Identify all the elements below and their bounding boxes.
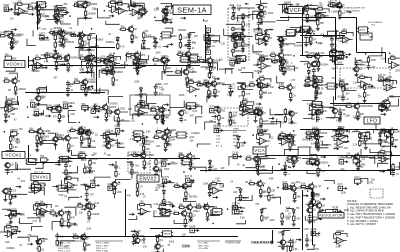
wire bbox=[262, 119, 276, 124]
svg-text:.047: .047 bbox=[262, 93, 267, 95]
base resistor R232 bbox=[76, 203, 83, 207]
base resistor R191 bbox=[178, 153, 185, 157]
ground bbox=[259, 194, 263, 198]
wire kb-box right bbox=[125, 189, 127, 237]
emitter resistor R8 bbox=[84, 10, 96, 15]
node bbox=[331, 136, 333, 138]
svg-text:ENV#1: ENV#1 bbox=[32, 175, 48, 180]
emitter resistor R4 bbox=[38, 13, 50, 18]
signal arrow bbox=[346, 11, 351, 13]
capacitor C42 bbox=[55, 233, 64, 239]
wire bbox=[208, 69, 210, 72]
jack J16 bbox=[209, 106, 218, 112]
base resistor R87 bbox=[306, 53, 313, 57]
node bbox=[17, 138, 19, 140]
wire bbox=[361, 149, 375, 157]
jack J19 bbox=[213, 126, 222, 132]
jack J13 bbox=[63, 102, 72, 108]
jack J5 bbox=[235, 56, 244, 63]
wire bbox=[285, 5, 287, 8]
diode D36 bbox=[281, 220, 284, 226]
svg-text:15K: 15K bbox=[290, 162, 295, 164]
capacitor C27 bbox=[316, 116, 323, 122]
signal arrow bbox=[81, 208, 86, 210]
resistor R185 bbox=[131, 168, 139, 176]
ground bbox=[316, 147, 320, 151]
svg-text:4.7K: 4.7K bbox=[44, 61, 49, 63]
wire bbox=[230, 4, 234, 6]
capacitor C18 bbox=[66, 81, 76, 87]
wire bbox=[277, 35, 281, 37]
wire bbox=[342, 93, 344, 96]
emitter resistor R76 bbox=[209, 65, 216, 70]
svg-text:.001: .001 bbox=[3, 33, 8, 35]
svg-text:3.3K: 3.3K bbox=[359, 141, 364, 143]
wire bbox=[150, 110, 157, 112]
jack J26 bbox=[107, 183, 116, 190]
signal arrow bbox=[165, 59, 170, 61]
IC U19 bbox=[58, 156, 70, 162]
capacitor C15 bbox=[312, 68, 321, 74]
op-amp A2 bbox=[109, 6, 122, 13]
wire bbox=[174, 220, 188, 224]
node bbox=[194, 168, 196, 170]
transistor Q14 bbox=[58, 29, 74, 38]
svg-text:2N3904: 2N3904 bbox=[168, 130, 177, 132]
svg-text:OBERHEIM: OBERHEIM bbox=[251, 241, 273, 245]
capacitor C1 bbox=[164, 16, 174, 22]
emitter resistor R169 bbox=[317, 142, 329, 147]
IC U13 bbox=[185, 103, 197, 109]
svg-text:.047: .047 bbox=[203, 81, 208, 83]
node bbox=[256, 80, 258, 82]
svg-text:33K: 33K bbox=[371, 179, 376, 181]
feedback resistor R120 bbox=[5, 99, 18, 107]
wire bbox=[95, 177, 111, 183]
transistor Q50 bbox=[310, 81, 326, 90]
wire bbox=[54, 57, 67, 62]
svg-text:2N3906: 2N3906 bbox=[7, 99, 16, 101]
svg-text:R21: R21 bbox=[131, 35, 136, 37]
svg-text:1M: 1M bbox=[55, 206, 58, 208]
ground bbox=[217, 122, 221, 126]
ground bbox=[154, 172, 158, 176]
transistor Q36 bbox=[278, 57, 289, 66]
wire bbox=[117, 139, 124, 147]
svg-text:4.7K: 4.7K bbox=[163, 84, 168, 86]
wire bbox=[156, 83, 162, 85]
svg-text:8.2K: 8.2K bbox=[357, 162, 362, 164]
signal arrow bbox=[41, 54, 46, 56]
svg-text:68K: 68K bbox=[217, 112, 222, 114]
wire bbox=[91, 88, 100, 94]
wire bbox=[15, 5, 29, 14]
svg-text:4.7K: 4.7K bbox=[291, 80, 296, 82]
wire bbox=[88, 41, 90, 44]
IC U3 bbox=[160, 32, 172, 38]
node bbox=[104, 10, 106, 12]
svg-text:220K: 220K bbox=[270, 220, 276, 222]
base resistor R172 bbox=[305, 130, 312, 134]
emitter resistor R218 bbox=[293, 193, 301, 198]
wire bbox=[139, 108, 153, 116]
transistor Q2 bbox=[54, 15, 65, 21]
op-amp A14 bbox=[388, 62, 400, 69]
svg-text:56K: 56K bbox=[238, 70, 243, 72]
base resistor R144 bbox=[345, 103, 352, 107]
jack J10 bbox=[378, 75, 387, 81]
svg-text:33K: 33K bbox=[14, 44, 19, 46]
wire bbox=[127, 161, 132, 163]
wire D-section rail bbox=[300, 55, 345, 57]
wire bbox=[324, 34, 333, 37]
wire bbox=[7, 211, 16, 216]
wire bbox=[369, 158, 385, 162]
svg-text:CA3046: CA3046 bbox=[312, 158, 321, 161]
ground bbox=[187, 64, 191, 68]
wire vco1 mid link bbox=[75, 47, 115, 49]
potentiometer VR6 bbox=[88, 54, 97, 62]
IC U10 bbox=[311, 77, 323, 83]
wire bbox=[201, 59, 213, 67]
wire bbox=[170, 101, 185, 108]
svg-text:1N914: 1N914 bbox=[313, 194, 320, 196]
signal arrow bbox=[168, 43, 173, 45]
wire bbox=[339, 108, 341, 111]
wire bbox=[256, 108, 260, 110]
ground bbox=[259, 95, 263, 99]
node bbox=[195, 95, 197, 97]
wire bbox=[5, 164, 18, 170]
resistor R82 bbox=[279, 56, 288, 64]
capacitor C38 bbox=[8, 187, 17, 193]
wire bbox=[16, 162, 31, 169]
ground bbox=[87, 47, 91, 51]
svg-text:4.7K: 4.7K bbox=[135, 95, 140, 97]
wire bbox=[308, 114, 317, 122]
emitter resistor R113 bbox=[316, 85, 324, 90]
ground bbox=[213, 94, 217, 98]
diode D32 bbox=[162, 189, 165, 195]
signal arrow bbox=[81, 34, 86, 36]
svg-text:5.6K: 5.6K bbox=[311, 221, 316, 223]
resistor R158 bbox=[142, 137, 154, 145]
wire mix bus bbox=[200, 170, 395, 172]
wire bbox=[355, 57, 365, 65]
wire bbox=[135, 236, 144, 244]
svg-text:+15V: +15V bbox=[15, 142, 21, 144]
svg-text:.001: .001 bbox=[212, 188, 217, 190]
wire bbox=[375, 155, 386, 164]
wire bbox=[88, 54, 95, 56]
jack J28 bbox=[185, 176, 194, 182]
ground bbox=[90, 68, 94, 72]
jack J30 bbox=[337, 184, 346, 190]
svg-text:Q12: Q12 bbox=[184, 113, 189, 115]
svg-text:-15V: -15V bbox=[101, 57, 106, 59]
wire reg vertical2 bbox=[312, 190, 314, 245]
svg-text:4.7K: 4.7K bbox=[230, 85, 235, 87]
svg-text:4.7K: 4.7K bbox=[229, 123, 234, 125]
transistor Q104 bbox=[79, 233, 90, 242]
transistor Q54 bbox=[113, 107, 129, 116]
jack J31 bbox=[11, 209, 20, 216]
svg-text:.001: .001 bbox=[214, 212, 219, 214]
ground bbox=[356, 167, 360, 171]
svg-text:GATE: GATE bbox=[189, 225, 196, 228]
wire bbox=[155, 170, 162, 177]
svg-text:Q12: Q12 bbox=[286, 242, 291, 244]
svg-text:1N914: 1N914 bbox=[179, 61, 186, 63]
wire bbox=[151, 249, 164, 252]
panel jack row 2 bbox=[231, 27, 244, 31]
ground bbox=[363, 99, 367, 103]
svg-text:33K: 33K bbox=[209, 121, 214, 123]
ground bbox=[35, 148, 39, 152]
wire bbox=[246, 161, 256, 168]
diode D37 bbox=[292, 209, 295, 215]
base resistor R236 bbox=[178, 204, 185, 208]
node bbox=[69, 54, 71, 56]
svg-text:2N3906: 2N3906 bbox=[32, 71, 41, 73]
emitter resistor R21 bbox=[339, 10, 346, 15]
box lfo range switch bbox=[360, 33, 372, 40]
feedback resistor R142 bbox=[309, 103, 322, 111]
node bbox=[258, 72, 260, 74]
jack J35 bbox=[11, 227, 20, 233]
emitter resistor R56 bbox=[67, 63, 74, 68]
transistor Q23 bbox=[277, 36, 288, 42]
svg-text:2N3906: 2N3906 bbox=[294, 46, 303, 48]
svg-text:47K: 47K bbox=[127, 195, 132, 197]
signal arrow bbox=[180, 17, 185, 19]
IC U21 bbox=[286, 156, 298, 162]
resistor R220 bbox=[312, 191, 321, 199]
ground bbox=[62, 44, 66, 48]
wire bbox=[68, 190, 77, 194]
resistor R247 bbox=[38, 245, 45, 252]
resistor R200 bbox=[9, 193, 17, 201]
emitter resistor R154 bbox=[88, 138, 96, 143]
wire bbox=[282, 136, 293, 144]
wire rail drop 1 bbox=[112, 66, 114, 70]
transistor Q31 bbox=[101, 57, 112, 66]
node bbox=[227, 208, 229, 210]
svg-text:18K: 18K bbox=[48, 106, 53, 108]
svg-text:2.2K: 2.2K bbox=[353, 144, 358, 146]
wire bbox=[112, 62, 125, 68]
wire L rail bbox=[300, 129, 398, 131]
resistor R37 bbox=[117, 42, 126, 50]
jack J36 bbox=[189, 225, 198, 232]
wire VCO1 mid rail bbox=[25, 92, 105, 94]
wire bbox=[260, 17, 262, 20]
resistor R78 bbox=[208, 72, 214, 80]
signal arrow bbox=[212, 115, 217, 117]
svg-text:2.2K: 2.2K bbox=[130, 139, 135, 141]
ground bbox=[10, 46, 14, 50]
svg-text:LAST: LAST bbox=[216, 128, 222, 131]
svg-text:+15V: +15V bbox=[56, 42, 62, 44]
potentiometer VR5 bbox=[5, 54, 14, 62]
svg-text:.001: .001 bbox=[78, 39, 83, 41]
wire bbox=[36, 105, 48, 110]
resistor R252 bbox=[289, 245, 298, 252]
IC U12 bbox=[50, 106, 62, 112]
signal arrow bbox=[269, 117, 274, 119]
potentiometer VR7 bbox=[161, 56, 170, 64]
node bbox=[245, 3, 247, 5]
wire bbox=[52, 222, 60, 231]
svg-text:2N3906: 2N3906 bbox=[70, 138, 79, 140]
ground bbox=[304, 43, 308, 47]
resistor R140 bbox=[284, 108, 293, 116]
signal arrow bbox=[189, 181, 194, 183]
panel jack row 3 bbox=[231, 38, 244, 42]
resistor R145 bbox=[10, 135, 21, 143]
node bbox=[69, 15, 71, 17]
diode D12 bbox=[279, 43, 282, 49]
IC U9 bbox=[235, 56, 247, 62]
ground bbox=[330, 48, 334, 52]
svg-text:47K: 47K bbox=[17, 1, 22, 3]
base resistor R67 bbox=[94, 59, 101, 63]
node bbox=[135, 242, 137, 244]
transistor Q20 bbox=[231, 32, 242, 38]
svg-text:R21: R21 bbox=[254, 32, 259, 34]
potentiometer VR15 bbox=[384, 130, 393, 138]
ground bbox=[292, 222, 296, 226]
transistor Q80 bbox=[152, 166, 163, 172]
svg-text:15K: 15K bbox=[135, 57, 140, 59]
diode D11 bbox=[264, 29, 267, 35]
transistor Q62 bbox=[314, 109, 325, 115]
signal arrow bbox=[368, 85, 373, 87]
feedback resistor R157 bbox=[103, 131, 116, 139]
wire bbox=[261, 158, 276, 164]
svg-text:1M: 1M bbox=[10, 19, 13, 21]
resistor R55 bbox=[33, 64, 45, 72]
svg-text:12K: 12K bbox=[4, 78, 9, 80]
wire bbox=[275, 60, 286, 64]
svg-text:2.2K: 2.2K bbox=[70, 114, 75, 116]
signal arrow bbox=[345, 53, 350, 55]
diode D3 bbox=[232, 11, 235, 17]
potentiometer VR4 bbox=[284, 2, 293, 10]
node bbox=[157, 106, 159, 108]
svg-text:68K: 68K bbox=[390, 55, 395, 57]
op-amp A12 bbox=[330, 55, 343, 62]
svg-text:8.2K: 8.2K bbox=[61, 116, 66, 118]
feedback resistor R202 bbox=[65, 175, 78, 183]
svg-text:2N3904: 2N3904 bbox=[337, 96, 346, 98]
feedback resistor R198 bbox=[378, 149, 391, 157]
wire bbox=[303, 96, 316, 101]
transistor Q100 bbox=[202, 203, 218, 212]
feedback resistor R233 bbox=[138, 202, 151, 210]
signal arrow bbox=[279, 40, 284, 42]
svg-text:5.6K: 5.6K bbox=[128, 58, 133, 60]
diode D4 bbox=[79, 32, 82, 38]
node bbox=[63, 139, 65, 141]
resistor R207 bbox=[163, 198, 172, 206]
svg-text:5.6K: 5.6K bbox=[332, 78, 337, 80]
section label box "VCO#1" bbox=[4, 61, 25, 68]
svg-text:R21: R21 bbox=[221, 111, 226, 113]
wire bbox=[378, 104, 387, 112]
emitter resistor R227 bbox=[61, 218, 69, 223]
svg-text:EXT IN: EXT IN bbox=[162, 177, 170, 179]
wire bbox=[126, 54, 139, 62]
resistor R251 bbox=[156, 236, 163, 244]
svg-text:EXT IN: EXT IN bbox=[378, 75, 386, 77]
svg-text:.001: .001 bbox=[230, 66, 235, 68]
svg-text:6.8K: 6.8K bbox=[311, 143, 316, 145]
svg-text:2N3906: 2N3906 bbox=[319, 133, 328, 135]
capacitor C45 bbox=[305, 237, 314, 243]
svg-text:+15V REGULATOR OUT: +15V REGULATOR OUT bbox=[341, 7, 366, 10]
svg-text:+15V: +15V bbox=[242, 99, 248, 101]
capacitor C12 bbox=[330, 36, 340, 42]
transistor Q19 bbox=[237, 32, 248, 41]
transistor Q29 bbox=[86, 54, 102, 63]
IC U23 bbox=[57, 185, 69, 191]
ground bbox=[205, 45, 209, 49]
signal arrow bbox=[53, 185, 58, 187]
svg-text:100K: 100K bbox=[43, 239, 49, 241]
transistor Q69 bbox=[84, 129, 95, 138]
resistor R23 bbox=[12, 37, 20, 45]
wire bbox=[57, 7, 66, 9]
section label box "VCO#2" bbox=[2, 152, 25, 159]
svg-text:5.6K: 5.6K bbox=[237, 6, 242, 8]
wire bbox=[62, 166, 77, 173]
node bbox=[361, 133, 363, 135]
feedback resistor R137 bbox=[240, 99, 253, 107]
wire bbox=[27, 218, 40, 223]
wire bbox=[4, 195, 6, 198]
resistor R211 bbox=[209, 184, 218, 192]
svg-text:3.3K: 3.3K bbox=[220, 187, 225, 189]
svg-text:R21: R21 bbox=[106, 6, 111, 8]
power color table bbox=[197, 241, 220, 250]
svg-text:R21: R21 bbox=[368, 139, 373, 141]
op-amp A17 bbox=[358, 81, 371, 88]
svg-text:CV IN: CV IN bbox=[232, 152, 238, 154]
wire bbox=[233, 53, 242, 57]
svg-text:ENV#2: ENV#2 bbox=[139, 176, 156, 182]
svg-text:6. ALL FET'S = 2N5457: 6. ALL FET'S = 2N5457 bbox=[347, 222, 377, 226]
base resistor R257 bbox=[175, 69, 182, 73]
node bbox=[212, 223, 214, 225]
svg-text:68K: 68K bbox=[158, 60, 163, 62]
svg-text:2.2K: 2.2K bbox=[309, 139, 314, 141]
wire bbox=[209, 63, 218, 71]
svg-text:12K: 12K bbox=[85, 245, 90, 247]
svg-text:LM3900: LM3900 bbox=[87, 79, 96, 81]
ground bbox=[290, 120, 294, 124]
signal arrow bbox=[391, 145, 396, 147]
wire bbox=[236, 187, 241, 189]
transistor Q35 bbox=[205, 56, 221, 65]
svg-text:1N914: 1N914 bbox=[361, 62, 368, 64]
svg-text:5.6K: 5.6K bbox=[10, 114, 15, 116]
svg-text:PWM: PWM bbox=[257, 127, 263, 129]
emitter resistor R194 bbox=[317, 168, 325, 173]
capacitor C26 bbox=[179, 117, 187, 123]
wire bbox=[260, 166, 273, 173]
resistor R20 bbox=[317, 19, 325, 27]
